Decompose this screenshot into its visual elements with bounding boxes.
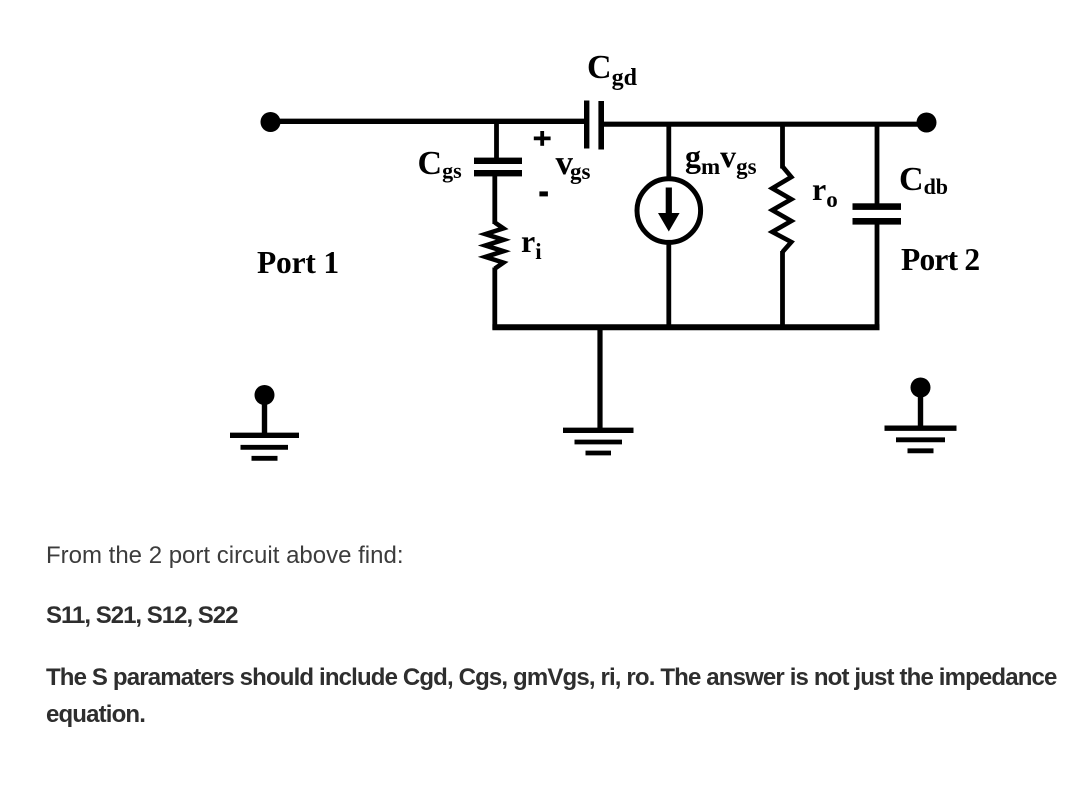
node: Port 2 output terminal dot [917, 113, 937, 133]
current source U1 gmVgs [637, 179, 701, 243]
wire: gmVgs to bottom rail [666, 242, 671, 330]
resistor R2 ro [772, 167, 791, 253]
label: vgs minus polarity sign [539, 191, 548, 196]
wire: gmVgs branch from top rail [666, 124, 671, 180]
resistor R1 ri [485, 223, 503, 269]
wire: Cgs to ri [492, 176, 497, 224]
wire: Port 1 ground stem [262, 395, 267, 434]
node: Port 1 reference terminal dot [255, 385, 275, 405]
text: S-parameter list [46, 602, 238, 630]
ground: Port 1 earth symbol [230, 435, 299, 458]
wire: bottom rail ground bus [492, 324, 879, 330]
wire: Port 2 ground stem [918, 388, 923, 428]
ground: Port 2 earth symbol [885, 428, 957, 451]
wire: top rail right segment (Cgd to Port 2) [604, 122, 928, 127]
wire: Cdb to bottom rail [875, 224, 880, 330]
wire: center ground stub from bottom rail [597, 327, 602, 431]
wire: ri to bottom rail [492, 268, 497, 330]
wire: top rail left segment (Port 1 to Cgd) [270, 119, 585, 124]
label: resistor ri value [521, 225, 542, 257]
label: current source gmVgs value [685, 140, 757, 172]
text: question line 1 [46, 542, 404, 570]
wire: Cdb branch from top rail [875, 124, 880, 205]
label: resistor ro value [812, 173, 838, 205]
label: Port 1 [257, 247, 339, 279]
capacitor C2 Cgs [474, 158, 522, 177]
ground: center earth symbol [563, 430, 634, 453]
wire: Cgs branch stub from top rail [494, 122, 499, 160]
wire: ro branch from top rail [780, 124, 785, 169]
label: Port 2 [901, 244, 979, 276]
capacitor C1 Cgd [584, 101, 604, 150]
node: Port 1 input terminal dot [261, 112, 281, 132]
label: capacitor Cgd value [587, 51, 637, 85]
capacitor C3 Cdb [853, 203, 902, 224]
text: question paragraph [46, 659, 1076, 733]
node: Port 2 reference terminal dot [911, 378, 931, 398]
label: vgs plus polarity sign [534, 131, 551, 146]
label: node voltage vgs [556, 145, 591, 180]
label: capacitor Cgs value [418, 147, 462, 181]
wire: ro to bottom rail [780, 251, 785, 330]
label: capacitor Cdb value [899, 163, 948, 197]
